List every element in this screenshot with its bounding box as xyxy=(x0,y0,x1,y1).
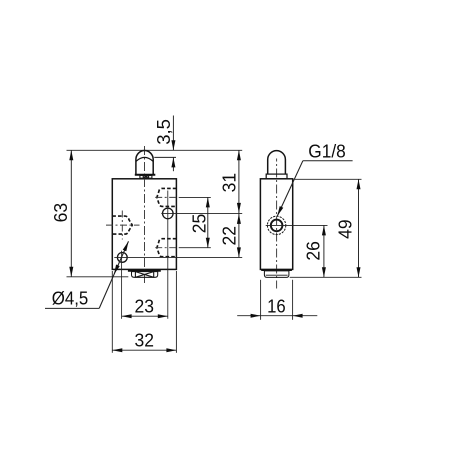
plunger pressed-position arc xyxy=(136,157,153,161)
extension line 26/49 bottom xyxy=(290,276,362,278)
extension line 25 bottom xyxy=(179,247,211,249)
collar flange line bottom side xyxy=(261,269,292,271)
svg-text:31: 31 xyxy=(219,173,240,193)
dimension 32 xyxy=(111,271,113,353)
leader G1/8 underline xyxy=(303,160,353,162)
centerline body front xyxy=(144,146,146,285)
svg-text:32: 32 xyxy=(134,329,154,350)
plunger knurl box xyxy=(140,175,152,178)
port G1/8 inner circle xyxy=(271,220,283,232)
hole H2 mounting Ø4,5 xyxy=(117,253,127,263)
centerline vertical through H1 / extension for 23 right xyxy=(167,191,169,319)
extension line 25 top xyxy=(179,196,211,198)
port G1/8 outer thread circle xyxy=(267,216,285,234)
svg-text:16: 16 xyxy=(267,296,286,317)
port P2 centerline xyxy=(155,247,179,249)
dimension 49 xyxy=(358,179,360,277)
extension line 49 top xyxy=(295,178,362,180)
port P3 vertical centerline xyxy=(121,211,123,240)
port P3 centerline xyxy=(106,224,140,226)
svg-text:3,5: 3,5 xyxy=(153,119,174,145)
body front view xyxy=(112,179,176,270)
leader Ø4,5 underline xyxy=(45,307,99,309)
plunger flange line xyxy=(135,174,156,176)
svg-text:49: 49 xyxy=(334,219,355,239)
dimension 3,5 xyxy=(172,116,174,151)
dimension 31 / 22 xyxy=(238,150,240,257)
extension line 22 bottom through H2 xyxy=(114,256,242,258)
dimension 16 xyxy=(260,280,262,320)
leader Ø4,5 arrow up xyxy=(123,241,129,251)
extension line 31/22 at H1 xyxy=(161,212,242,214)
plunger dome side xyxy=(268,151,286,174)
plunger dome front xyxy=(136,151,153,175)
body side view xyxy=(260,179,292,270)
port P1 upper right (hidden) xyxy=(157,188,177,206)
dimension 23 xyxy=(122,315,168,317)
centerline body side xyxy=(276,159,278,289)
hole H1 side-port circle xyxy=(163,208,174,219)
leader Ø4,5 diagonal xyxy=(99,241,128,308)
leader Ø4,5 arrow down xyxy=(114,265,120,275)
collar flange line bottom front xyxy=(128,270,161,272)
port P1 centerline xyxy=(155,196,179,198)
port horizontal crosshair / extension 26 xyxy=(266,224,328,226)
dimension 25 xyxy=(207,197,209,247)
extension line pressed apex (3,5) xyxy=(154,156,176,158)
svg-text:63: 63 xyxy=(50,203,71,223)
collar bottom side xyxy=(264,271,289,278)
svg-text:26: 26 xyxy=(302,241,323,261)
plunger collar side xyxy=(266,174,287,179)
extension line top (63 / 3,5 / 31) xyxy=(67,149,243,151)
leader G1/8 arrow xyxy=(277,206,283,216)
svg-text:23: 23 xyxy=(134,295,154,316)
dimension 63 xyxy=(70,150,72,276)
port P3 left (hidden) xyxy=(112,216,132,234)
leader G1/8 diagonal xyxy=(277,161,303,216)
extension line bottom (63) xyxy=(67,276,129,278)
svg-text:Ø4,5: Ø4,5 xyxy=(52,288,89,309)
dimension 26 xyxy=(323,225,325,277)
collar knurl box bottom front xyxy=(132,272,158,278)
svg-text:25: 25 xyxy=(188,214,209,234)
svg-text:22: 22 xyxy=(219,226,240,246)
extension line 23 left through H2 xyxy=(121,251,123,319)
svg-text:G1/8: G1/8 xyxy=(308,141,346,162)
port P2 lower right (hidden) xyxy=(157,239,177,257)
